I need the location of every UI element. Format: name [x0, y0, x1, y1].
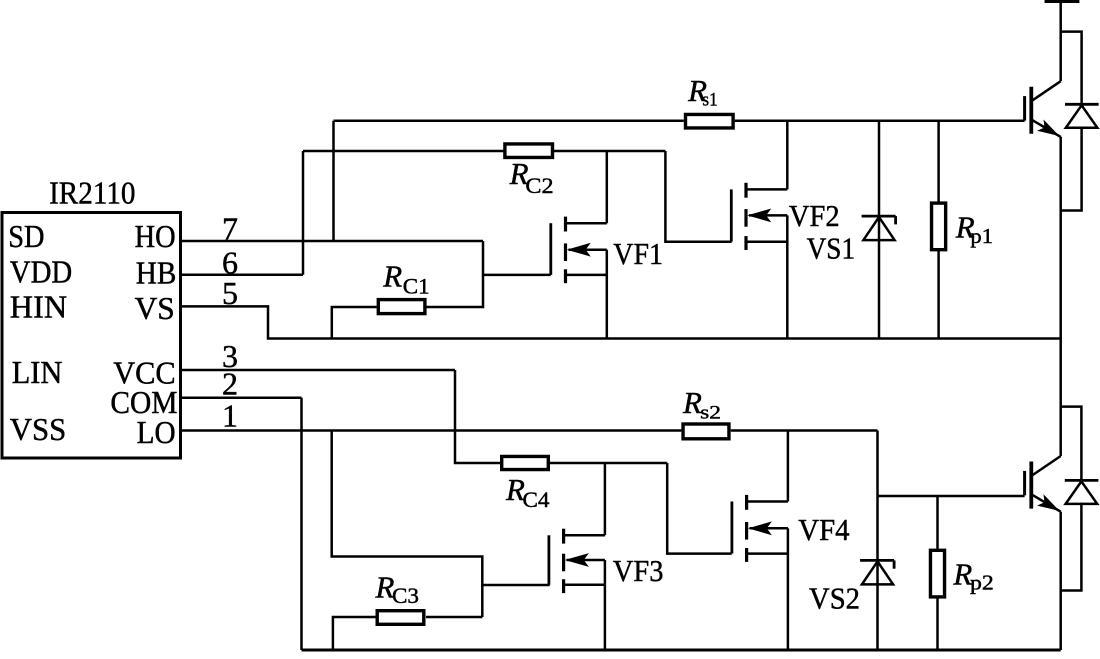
- svg-text:SD: SD: [8, 218, 44, 254]
- svg-text:VF3: VF3: [613, 553, 664, 588]
- svg-text:VSS: VSS: [10, 411, 67, 447]
- svg-text:VS: VS: [135, 290, 175, 326]
- svg-text:LIN: LIN: [12, 354, 63, 390]
- svg-text:2: 2: [222, 366, 238, 402]
- svg-text:VF2: VF2: [789, 198, 840, 233]
- svg-text:HB: HB: [136, 254, 177, 290]
- svg-text:IR2110: IR2110: [49, 175, 135, 211]
- svg-text:VS2: VS2: [809, 581, 860, 616]
- svg-text:p1: p1: [970, 224, 993, 248]
- svg-text:VDD: VDD: [10, 253, 72, 289]
- svg-text:HO: HO: [135, 218, 176, 254]
- svg-text:HIN: HIN: [10, 288, 67, 324]
- svg-text:VF1: VF1: [613, 236, 663, 271]
- svg-text:C3: C3: [392, 583, 419, 608]
- svg-text:LO: LO: [137, 414, 176, 450]
- svg-text:VF4: VF4: [798, 512, 850, 547]
- svg-text:7: 7: [222, 211, 238, 247]
- svg-text:R: R: [382, 259, 402, 294]
- svg-text:R: R: [682, 385, 702, 420]
- svg-text:C1: C1: [403, 274, 430, 299]
- svg-text:p2: p2: [970, 571, 994, 595]
- svg-text:s1: s1: [702, 90, 717, 111]
- svg-text:s2: s2: [700, 403, 721, 424]
- svg-text:1: 1: [222, 397, 238, 433]
- svg-text:VS1: VS1: [807, 230, 856, 265]
- svg-text:C4: C4: [523, 487, 550, 512]
- svg-text:C2: C2: [525, 173, 553, 198]
- svg-text:5: 5: [222, 275, 238, 311]
